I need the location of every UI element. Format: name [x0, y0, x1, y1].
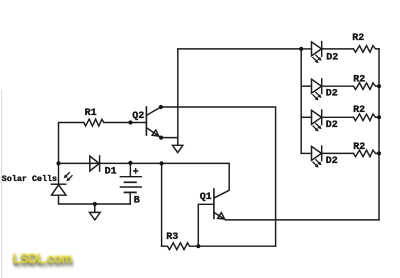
- svg-text:Q1: Q1: [200, 192, 212, 203]
- svg-text:D2: D2: [326, 89, 338, 100]
- svg-text:D2: D2: [326, 156, 338, 167]
- svg-text:+: +: [133, 168, 139, 179]
- svg-text:Q2: Q2: [132, 111, 144, 122]
- svg-text:B: B: [134, 196, 140, 207]
- svg-text:R1: R1: [85, 108, 97, 119]
- svg-text:D2: D2: [326, 52, 338, 63]
- svg-text:R2: R2: [353, 74, 365, 85]
- svg-text:R2: R2: [353, 105, 365, 116]
- svg-text:R2: R2: [353, 142, 365, 153]
- svg-text:D2: D2: [326, 120, 338, 131]
- svg-text:D1: D1: [105, 167, 117, 178]
- svg-text:R3: R3: [166, 232, 178, 243]
- svg-text:Solar Cells: Solar Cells: [2, 174, 57, 184]
- svg-text:R2: R2: [352, 33, 364, 44]
